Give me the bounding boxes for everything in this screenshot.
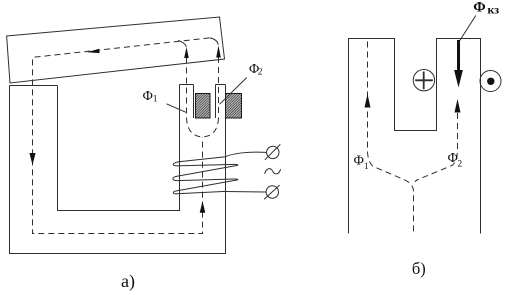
pointer line F2 label xyxy=(220,78,247,105)
svg-text:а): а) xyxy=(121,271,135,292)
coil on right leg xyxy=(173,152,267,194)
terminal top xyxy=(267,146,279,158)
shading ring section outside leg xyxy=(226,94,242,119)
arrowhead up F1 b xyxy=(365,94,371,108)
flux F2 dashed b xyxy=(415,113,458,182)
arrowhead up F2 armature xyxy=(216,46,221,58)
hook joining F2 to armature run xyxy=(210,38,219,45)
armature (tilted plate) xyxy=(7,17,225,83)
ring current dot symbol xyxy=(480,71,501,92)
svg-text:1: 1 xyxy=(364,162,369,172)
flux F2 vertical dashed xyxy=(218,57,220,118)
pole top edge left segment xyxy=(180,84,194,86)
svg-text:кз: кз xyxy=(488,3,500,17)
svg-text:2: 2 xyxy=(258,68,263,78)
core window xyxy=(58,85,180,211)
wire to bottom terminal xyxy=(226,191,267,194)
core left leg top edge xyxy=(10,85,58,87)
flux split U arc xyxy=(187,118,219,137)
Fkz thick arrow xyxy=(457,40,460,71)
arrowhead up F2 b xyxy=(455,99,461,113)
arrowhead left on armature run xyxy=(87,49,100,53)
arrowhead up right leg xyxy=(200,201,206,213)
shading ring section in slot xyxy=(196,94,211,119)
AC tilde xyxy=(265,169,281,174)
hook joining F1 to armature run xyxy=(178,40,186,46)
ring current cross symbol xyxy=(413,70,434,91)
svg-text:1: 1 xyxy=(153,94,158,104)
flux F1 vertical dashed xyxy=(186,58,188,118)
flux loop dashed path a xyxy=(33,38,210,234)
svg-text:Φ: Φ xyxy=(448,151,458,166)
pointer line Fkz label xyxy=(460,16,476,41)
svg-text:2: 2 xyxy=(457,159,462,169)
pole slot right wall xyxy=(215,85,217,119)
terminal bottom xyxy=(266,186,278,198)
core outer outline xyxy=(10,85,226,254)
svg-text:Φ: Φ xyxy=(473,0,485,15)
arrowhead down left leg xyxy=(29,153,35,165)
svg-text:б): б) xyxy=(412,259,426,278)
svg-text:Φ: Φ xyxy=(354,154,364,169)
arrowhead up F1 armature xyxy=(184,47,189,58)
svg-text:Φ: Φ xyxy=(143,89,153,104)
diagram b pole outline xyxy=(349,39,481,234)
pole slot left wall xyxy=(193,85,195,119)
flux F1 dashed b xyxy=(368,42,414,234)
pointer line F1 label xyxy=(167,104,186,113)
arrowhead Fkz thick xyxy=(454,70,463,88)
pole top edge right segment xyxy=(216,84,226,86)
